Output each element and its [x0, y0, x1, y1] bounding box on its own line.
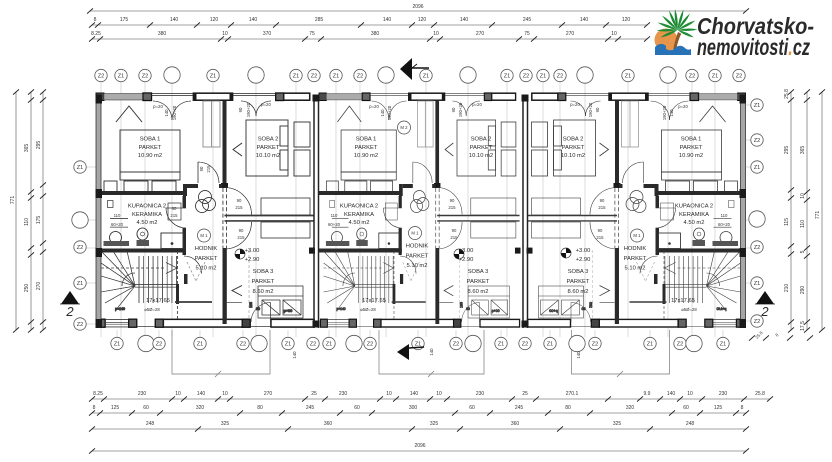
svg-text:325: 325 — [613, 421, 622, 427]
svg-text:2096: 2096 — [414, 443, 425, 449]
svg-text:190+20: 190+20 — [246, 102, 251, 117]
svg-text:8.25: 8.25 — [93, 391, 103, 397]
SOBA2 wardrobe — [294, 122, 310, 147]
bathroom sink — [110, 232, 122, 244]
svg-text:365: 365 — [800, 146, 806, 155]
section arrow bottom — [397, 344, 409, 360]
svg-text:215: 215 — [598, 205, 606, 210]
svg-text:+2.90: +2.90 — [245, 257, 260, 263]
svg-text:SOBA 2: SOBA 2 — [258, 137, 279, 143]
svg-text:90: 90 — [199, 166, 204, 171]
svg-text:75: 75 — [309, 31, 315, 37]
svg-text:p=20: p=20 — [472, 102, 482, 107]
svg-text:90: 90 — [239, 228, 244, 233]
svg-text:PARKET: PARKET — [406, 253, 429, 259]
svg-text:140: 140 — [667, 391, 676, 397]
svg-text:8.60 m2: 8.60 m2 — [253, 289, 274, 295]
svg-text:KERAMIKA: KERAMIKA — [344, 212, 374, 218]
bottom dim row 2 — [92, 412, 746, 414]
svg-text:110: 110 — [331, 213, 338, 218]
svg-text:10.90 m2: 10.90 m2 — [679, 153, 703, 159]
svg-text:175: 175 — [120, 17, 129, 23]
svg-text:Z1: Z1 — [197, 342, 204, 348]
svg-text:KUPAONICA 2: KUPAONICA 2 — [128, 204, 166, 210]
svg-text:190+20: 190+20 — [458, 102, 463, 117]
svg-text:Z1: Z1 — [210, 74, 217, 80]
svg-text:10: 10 — [433, 31, 439, 37]
svg-text:Z2: Z2 — [754, 319, 761, 325]
svg-text:p=20: p=20 — [369, 104, 379, 109]
svg-text:60: 60 — [143, 405, 149, 411]
svg-text:120: 120 — [418, 17, 427, 23]
svg-text:140: 140 — [429, 348, 434, 356]
svg-text:17x17.65: 17x17.65 — [362, 298, 386, 304]
label 110/60+20 underlines — [110, 217, 128, 219]
svg-text:248: 248 — [146, 421, 155, 427]
bathroom bottom wall — [96, 249, 186, 253]
svg-text:215: 215 — [450, 235, 458, 240]
bottom-right corner small dims — [754, 330, 780, 340]
svg-text:Z1: Z1 — [293, 74, 300, 80]
svg-text:125: 125 — [111, 405, 120, 411]
svg-text:4.50 m2: 4.50 m2 — [684, 220, 705, 226]
svg-text:Z2: Z2 — [754, 138, 761, 144]
svg-text:Z2: Z2 — [689, 74, 696, 80]
svg-text:245: 245 — [306, 405, 315, 411]
svg-text:HODNIK: HODNIK — [406, 244, 429, 250]
svg-text:PARKET: PARKET — [355, 145, 378, 151]
svg-text:9.9: 9.9 — [644, 391, 651, 397]
wall H1 below SOBA1 — [96, 191, 186, 195]
svg-text:215: 215 — [235, 205, 243, 210]
svg-text:10.10 m2: 10.10 m2 — [561, 153, 585, 159]
bathroom right wall — [183, 196, 187, 208]
svg-text:90: 90 — [450, 198, 455, 203]
svg-text:140: 140 — [669, 109, 674, 117]
svg-text:325: 325 — [430, 421, 439, 427]
svg-text:230: 230 — [719, 391, 728, 397]
svg-text:⌀5Ø=28: ⌀5Ø=28 — [681, 307, 697, 312]
svg-text:270: 270 — [36, 282, 42, 291]
vestibule cupboards — [261, 198, 310, 215]
toilet — [137, 228, 148, 240]
svg-text:HODNIK: HODNIK — [624, 246, 647, 252]
svg-text:5.10 m2: 5.10 m2 — [196, 266, 217, 272]
SOBA1 radiator chevron — [116, 106, 142, 122]
svg-text:140: 140 — [197, 391, 206, 397]
svg-text:p=20: p=20 — [570, 102, 580, 107]
svg-text:25.8: 25.8 — [754, 330, 764, 340]
section marker right — [756, 291, 774, 304]
svg-text:SOBA 2: SOBA 2 — [563, 137, 584, 143]
svg-text:140: 140 — [164, 109, 169, 117]
svg-text:Z1: Z1 — [712, 74, 719, 80]
top row — [95, 67, 745, 83]
svg-text:Z1: Z1 — [754, 103, 761, 109]
svg-text:4.50 m2: 4.50 m2 — [137, 220, 158, 226]
svg-text:115: 115 — [784, 218, 790, 226]
svg-text:Z2: Z2 — [142, 74, 149, 80]
top dim row 2 — [92, 24, 647, 26]
SOBA1 bed — [120, 130, 180, 172]
svg-text:p=20: p=20 — [261, 102, 271, 107]
svg-text:248: 248 — [686, 421, 695, 427]
svg-text:KUPAONICA 2: KUPAONICA 2 — [675, 204, 713, 210]
svg-text:215: 215 — [170, 213, 178, 218]
svg-text:285: 285 — [315, 17, 324, 23]
svg-text:PARKET: PARKET — [680, 145, 703, 151]
window swing arcs SOBA2 — [241, 101, 256, 116]
svg-text:140: 140 — [380, 109, 385, 117]
svg-text:215: 215 — [206, 165, 211, 173]
top wall band unit — [96, 93, 310, 101]
svg-text:4.50 m2: 4.50 m2 — [349, 220, 370, 226]
svg-text:PARKET: PARKET — [139, 145, 162, 151]
bottom row — [111, 335, 729, 351]
svg-text:270.1: 270.1 — [566, 391, 579, 397]
svg-text:60: 60 — [683, 405, 689, 411]
svg-text:+2.90: +2.90 — [459, 257, 474, 263]
svg-text:290: 290 — [800, 286, 806, 295]
svg-text:+3.00: +3.00 — [459, 248, 474, 254]
svg-text:10: 10 — [386, 391, 392, 397]
svg-text:90: 90 — [238, 107, 243, 112]
svg-text:Z2: Z2 — [754, 245, 761, 251]
svg-text:120: 120 — [622, 17, 631, 23]
bathroom door arc — [166, 208, 186, 228]
svg-text:110: 110 — [721, 213, 728, 218]
svg-text:90: 90 — [598, 228, 603, 233]
svg-text:Z2: Z2 — [522, 342, 529, 348]
svg-text:SOBA 2: SOBA 2 — [471, 137, 492, 143]
svg-text:270: 270 — [566, 31, 575, 37]
svg-text:245: 245 — [515, 405, 524, 411]
svg-text:230: 230 — [339, 391, 348, 397]
shower — [161, 233, 183, 249]
svg-text:140: 140 — [383, 17, 392, 23]
left outer wall — [96, 95, 101, 328]
unit1 room labels — [111, 102, 280, 312]
top dim row 3 — [92, 38, 647, 40]
svg-text:10.90 m2: 10.90 m2 — [354, 153, 378, 159]
svg-text:p=20: p=20 — [678, 104, 688, 109]
svg-text:60+20: 60+20 — [111, 222, 124, 227]
svg-text:Z1: Z1 — [625, 74, 632, 80]
svg-text:17x17.65: 17x17.65 — [671, 298, 695, 304]
svg-text:Z1: Z1 — [547, 342, 554, 348]
svg-text:270: 270 — [476, 31, 485, 37]
svg-text:320: 320 — [196, 405, 205, 411]
svg-text:Z2: Z2 — [77, 245, 84, 251]
svg-text:Z1: Z1 — [754, 281, 761, 287]
svg-text:245: 245 — [523, 17, 532, 23]
svg-text:250: 250 — [24, 284, 30, 293]
svg-text:25: 25 — [311, 391, 317, 397]
svg-text:10: 10 — [436, 391, 442, 397]
svg-text:75: 75 — [524, 31, 530, 37]
svg-text:90: 90 — [452, 228, 457, 233]
svg-text:Z1: Z1 — [333, 74, 340, 80]
svg-text:60+20: 60+20 — [718, 222, 731, 227]
closet — [203, 101, 220, 147]
svg-text:2: 2 — [65, 304, 74, 319]
party wall 1 — [314, 95, 319, 328]
svg-text:140: 140 — [576, 351, 581, 359]
svg-text:p=20: p=20 — [153, 104, 163, 109]
svg-text:80: 80 — [257, 405, 263, 411]
svg-text:325: 325 — [221, 421, 230, 427]
svg-text:110: 110 — [114, 213, 121, 218]
svg-text:Z2: Z2 — [367, 342, 374, 348]
svg-text:PARKET: PARKET — [195, 256, 218, 262]
stairs door arc — [184, 256, 202, 274]
svg-text:210: 210 — [784, 284, 790, 293]
svg-text:M 1: M 1 — [633, 233, 641, 238]
svg-text:140: 140 — [170, 17, 179, 23]
svg-text:KUPAONICA 2: KUPAONICA 2 — [340, 204, 378, 210]
svg-text:10: 10 — [800, 193, 806, 199]
svg-text:Z1: Z1 — [285, 342, 292, 348]
svg-text:215: 215 — [448, 205, 456, 210]
svg-text:140: 140 — [460, 17, 469, 23]
svg-text:771: 771 — [815, 211, 821, 220]
svg-text:17.5: 17.5 — [800, 321, 806, 331]
soba3 door arc — [225, 222, 252, 249]
svg-text:Z2: Z2 — [77, 322, 84, 328]
svg-text:25.8: 25.8 — [755, 391, 765, 397]
unit2 room labels — [328, 102, 493, 312]
svg-text:Z2: Z2 — [240, 342, 247, 348]
svg-text:Z1: Z1 — [118, 74, 125, 80]
svg-text:nemovitosti.cz: nemovitosti.cz — [697, 34, 810, 60]
svg-text:380: 380 — [371, 31, 380, 37]
svg-text:110: 110 — [24, 218, 30, 226]
svg-text:Z2: Z2 — [310, 342, 317, 348]
svg-text:Z1: Z1 — [504, 74, 511, 80]
waves — [655, 46, 691, 55]
left column — [72, 161, 88, 330]
svg-text:SOBA 3: SOBA 3 — [468, 269, 489, 275]
svg-text:190+20: 190+20 — [588, 102, 593, 117]
palm fronds — [657, 9, 698, 38]
svg-text:25: 25 — [522, 391, 528, 397]
SOBA1 entry door arc — [198, 162, 219, 183]
svg-text:90: 90 — [600, 198, 605, 203]
svg-text:⌀5Ø=28: ⌀5Ø=28 — [360, 307, 376, 312]
svg-text:10: 10 — [611, 31, 617, 37]
palm sun — [655, 29, 678, 52]
svg-text:295: 295 — [784, 146, 790, 155]
svg-text:PARKET: PARKET — [470, 145, 493, 151]
vestibule door arc — [225, 188, 252, 215]
svg-text:140: 140 — [410, 391, 419, 397]
svg-text:PARKET: PARKET — [467, 279, 490, 285]
svg-text:190+20: 190+20 — [172, 105, 177, 120]
bottom dim row 1 — [92, 398, 770, 400]
svg-text:Z1: Z1 — [720, 342, 727, 348]
svg-text:300: 300 — [409, 405, 418, 411]
svg-text:8.25: 8.25 — [91, 31, 101, 37]
terrace unit1 — [172, 330, 270, 377]
svg-text:120: 120 — [210, 17, 219, 23]
svg-text:PARKET: PARKET — [567, 279, 590, 285]
svg-text:80: 80 — [172, 206, 177, 211]
svg-text:Z2: Z2 — [357, 74, 364, 80]
svg-text:60: 60 — [469, 405, 475, 411]
svg-text:190+20: 190+20 — [662, 105, 667, 120]
dashed line soba3 — [248, 250, 250, 320]
svg-text:⌀5Ø=28: ⌀5Ø=28 — [144, 307, 160, 312]
svg-text:Z2: Z2 — [156, 342, 163, 348]
svg-text:175: 175 — [36, 216, 42, 225]
svg-text:5: 5 — [800, 250, 806, 253]
svg-text:Z2: Z2 — [523, 74, 530, 80]
svg-text:2: 2 — [760, 304, 769, 319]
svg-text:360: 360 — [324, 421, 333, 427]
svg-text:Z2: Z2 — [677, 342, 684, 348]
section arrow top — [400, 58, 412, 80]
svg-text:10: 10 — [175, 391, 181, 397]
svg-text:Z1: Z1 — [540, 74, 547, 80]
svg-text:90: 90 — [451, 107, 456, 112]
svg-text:10: 10 — [687, 391, 693, 397]
terrace unit2 — [379, 330, 484, 377]
boiler circles — [199, 191, 212, 204]
SOBA2 bed — [246, 120, 288, 176]
svg-text:10: 10 — [222, 391, 228, 397]
svg-text:SOBA 1: SOBA 1 — [140, 137, 161, 143]
svg-text:140: 140 — [292, 351, 297, 359]
svg-text:Z1: Z1 — [77, 281, 84, 287]
svg-text:380: 380 — [158, 31, 167, 37]
svg-text:8: 8 — [93, 405, 96, 411]
soba3 radiator chevron — [232, 286, 242, 296]
svg-text:10: 10 — [222, 31, 228, 37]
svg-text:17x17.65: 17x17.65 — [146, 298, 170, 304]
svg-text:Z1: Z1 — [326, 342, 333, 348]
svg-text:+3.00: +3.00 — [576, 248, 591, 254]
svg-text:SOBA 1: SOBA 1 — [356, 137, 377, 143]
svg-text:KERAMIKA: KERAMIKA — [132, 212, 162, 218]
svg-text:230: 230 — [476, 391, 485, 397]
svg-text:771: 771 — [10, 196, 16, 205]
top dim row 1 overall — [90, 10, 746, 12]
svg-text:HODNIK: HODNIK — [195, 246, 218, 252]
bottom dim row 3 — [92, 428, 746, 430]
svg-text:Z1: Z1 — [647, 342, 654, 348]
svg-text:365: 365 — [24, 144, 30, 153]
svg-text:215: 215 — [237, 235, 245, 240]
svg-text:90: 90 — [237, 198, 242, 203]
hodnik walkline — [187, 262, 205, 281]
svg-text:360: 360 — [511, 421, 520, 427]
svg-text:295: 295 — [36, 141, 42, 150]
wall V2 hall strip — [223, 101, 227, 185]
svg-text:Z1: Z1 — [77, 165, 84, 171]
svg-text:PARKET: PARKET — [252, 279, 275, 285]
svg-text:8: 8 — [94, 17, 97, 23]
corridor right wall lower — [223, 248, 227, 324]
svg-text:60+20: 60+20 — [328, 222, 341, 227]
bottom wall band unit — [98, 303, 314, 328]
svg-text:8.60 m2: 8.60 m2 — [568, 289, 589, 295]
svg-text:Z2: Z2 — [311, 74, 318, 80]
svg-text:PARKET: PARKET — [624, 256, 647, 262]
svg-text:KERAMIKA: KERAMIKA — [679, 212, 709, 218]
vestibule wall above SOBA3 — [225, 215, 315, 217]
svg-text:Z2: Z2 — [98, 74, 105, 80]
svg-text:M 1: M 1 — [411, 231, 419, 236]
svg-text:Z1: Z1 — [423, 74, 430, 80]
unit3 room labels (mirrored unit) — [561, 102, 731, 312]
svg-text:230: 230 — [138, 391, 147, 397]
svg-text:M 2: M 2 — [400, 125, 408, 130]
svg-text:320: 320 — [626, 405, 635, 411]
svg-text:10.90 m2: 10.90 m2 — [138, 153, 162, 159]
svg-text:90: 90 — [595, 107, 600, 112]
SOBA2 radiator chevron — [233, 143, 242, 156]
stairs — [101, 251, 179, 321]
right outer wall — [741, 95, 746, 328]
svg-text:Z1: Z1 — [754, 165, 761, 171]
svg-text:PARKET: PARKET — [562, 145, 585, 151]
svg-text:270: 270 — [264, 391, 273, 397]
svg-text:Z1: Z1 — [114, 342, 121, 348]
svg-text:140: 140 — [249, 17, 258, 23]
svg-text:8: 8 — [774, 332, 780, 338]
svg-text:M 1: M 1 — [200, 233, 208, 238]
svg-text:10.10 m2: 10.10 m2 — [256, 153, 280, 159]
svg-text:+3.00: +3.00 — [245, 248, 260, 254]
svg-text:PARKET: PARKET — [257, 145, 280, 151]
svg-text:10.10 m2: 10.10 m2 — [469, 153, 493, 159]
svg-text:Z2: Z2 — [592, 342, 599, 348]
svg-text:215: 215 — [596, 235, 604, 240]
palm trunk — [673, 32, 682, 55]
svg-text:Z1: Z1 — [498, 342, 505, 348]
svg-text:+2.90: +2.90 — [576, 257, 591, 263]
svg-text:60: 60 — [354, 405, 360, 411]
svg-text:140: 140 — [580, 17, 589, 23]
svg-text:125: 125 — [714, 405, 723, 411]
party wall 2 — [523, 95, 528, 328]
right dim lines — [790, 92, 792, 330]
section marker left — [61, 291, 79, 304]
svg-text:5.10 m2: 5.10 m2 — [407, 263, 428, 269]
svg-text:SOBA 3: SOBA 3 — [253, 269, 274, 275]
label box 80/215 — [168, 203, 181, 220]
window swing arcs SOBA1 — [153, 101, 172, 120]
terrace unit3 — [572, 330, 670, 377]
svg-text:80: 80 — [565, 405, 571, 411]
svg-text:SOBA 3: SOBA 3 — [568, 269, 589, 275]
svg-text:370: 370 — [263, 31, 272, 37]
bottom dim row 4 overall — [92, 450, 746, 452]
svg-text:Z2: Z2 — [557, 74, 564, 80]
svg-text:SOBA 1: SOBA 1 — [681, 137, 702, 143]
svg-text:25.8: 25.8 — [784, 89, 790, 99]
svg-text:2096: 2096 — [412, 4, 423, 10]
svg-text:Z2: Z2 — [453, 342, 460, 348]
svg-text:8.60 m2: 8.60 m2 — [468, 289, 489, 295]
SOBA3 furniture — [258, 286, 303, 318]
svg-text:110: 110 — [800, 220, 806, 228]
svg-text:190+20: 190+20 — [387, 105, 392, 120]
svg-text:5.10 m2: 5.10 m2 — [625, 266, 646, 272]
right column — [749, 99, 765, 327]
left dim lines — [15, 92, 17, 330]
svg-text:8: 8 — [741, 405, 744, 411]
